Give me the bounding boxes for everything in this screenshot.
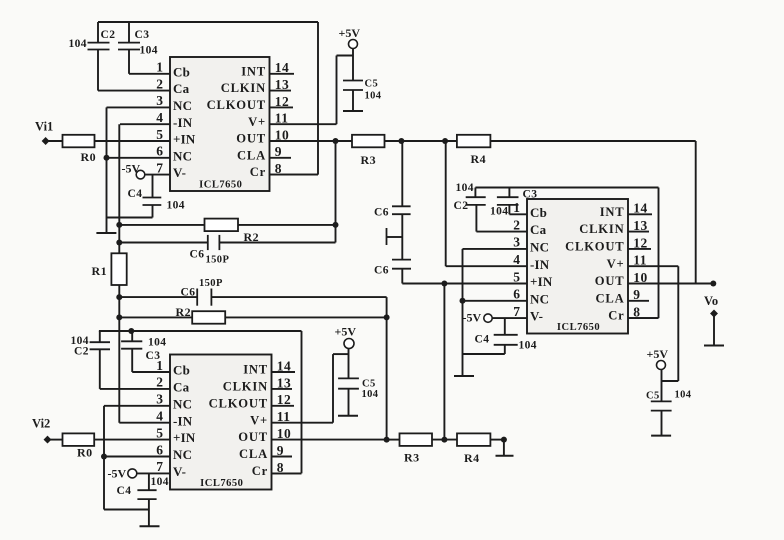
U2 pin 6 (NC) (104, 442, 170, 457)
U1 pin 13 (CLKIN) (270, 77, 292, 92)
svg-text:Vi1: Vi1 (35, 120, 53, 134)
label 104 (C4 U1) (167, 200, 185, 212)
svg-text:104: 104 (151, 476, 169, 488)
svg-text:C6: C6 (374, 265, 389, 277)
U1 pin 12 (CLKOUT) (270, 94, 294, 109)
U1 pin 5 (+IN) (95, 127, 171, 142)
wire: C6 row (U1 feedback) (119, 242, 335, 244)
svg-text:R0: R0 (77, 446, 92, 460)
svg-text:OUT: OUT (236, 132, 266, 146)
svg-text:1: 1 (156, 60, 163, 75)
wire: bottom node up to U3 pin5 (443, 284, 445, 440)
svg-text:2: 2 (156, 375, 163, 390)
wire: R3 to R4 (bottom) (432, 439, 457, 441)
wire: U3 pins 3+6 ground drop (462, 249, 464, 376)
svg-text:13: 13 (277, 375, 292, 390)
resistor R1 (111, 253, 126, 285)
junction: R4 bottom right (501, 437, 507, 443)
svg-text:-IN: -IN (530, 257, 550, 272)
svg-text:R4: R4 (464, 451, 479, 465)
svg-text:Vi2: Vi2 (32, 417, 50, 431)
svg-text:9: 9 (275, 144, 282, 159)
ground (Vo) (704, 345, 724, 347)
svg-text:Cr: Cr (608, 309, 624, 323)
svg-text:V-: V- (173, 464, 186, 479)
label 104 (C4 U2) (151, 476, 169, 488)
capacitor C6 (U2 feedback) 150P (197, 289, 211, 306)
svg-text:NC: NC (173, 98, 192, 113)
wire: U3 wrap net (top to pin 8) (475, 188, 658, 319)
svg-text:12: 12 (277, 392, 292, 407)
svg-text:2: 2 (513, 217, 520, 232)
label 104 (C3 U2) (148, 337, 166, 349)
svg-text:C4: C4 (128, 188, 143, 200)
label C6 (U2 feedback) (181, 287, 196, 299)
U1 pin 14 (INT) (270, 60, 295, 75)
label C5 (U1) (365, 79, 379, 90)
svg-text:R2: R2 (176, 305, 191, 319)
svg-text:R0: R0 (81, 150, 96, 164)
svg-text:C4: C4 (475, 334, 490, 346)
svg-text:10: 10 (275, 127, 290, 142)
node Vo (704, 294, 718, 308)
capacitor C2 (U2) 104 (90, 331, 110, 389)
label 104 (C3 U1) (140, 45, 158, 57)
svg-text:11: 11 (275, 111, 289, 126)
wire: R4 to ground (bottom) (490, 440, 504, 456)
svg-text:10: 10 (277, 426, 292, 441)
U2 pin 3 (NC) (104, 392, 170, 407)
label C6 (upper series) (374, 207, 389, 219)
svg-text:12: 12 (633, 235, 648, 250)
svg-text:3: 3 (513, 235, 520, 250)
svg-text:104: 104 (490, 206, 508, 218)
wire: U1 OUT row (336, 140, 353, 142)
svg-text:Ca: Ca (173, 380, 190, 395)
node Vi1 (35, 120, 63, 145)
svg-text:7: 7 (156, 160, 163, 175)
svg-text:5: 5 (513, 269, 520, 284)
U3 pin 1 (Cb) (509, 200, 527, 215)
svg-text:C5: C5 (362, 379, 376, 390)
ground (R4 bottom) (496, 455, 514, 457)
node Vi2 (32, 417, 63, 444)
U2 pin 1 (Cb) (132, 358, 170, 373)
junction: R2 row left (116, 222, 122, 228)
junction: R2 row right (U2) (384, 314, 390, 320)
svg-text:+5V: +5V (647, 347, 669, 361)
wire: U3 V+ to +5V (662, 266, 679, 381)
svg-text:104: 104 (365, 91, 382, 102)
capacitor C5 (U2) 104 (338, 378, 359, 415)
svg-text:ICL7650: ICL7650 (200, 478, 243, 489)
svg-text:C5: C5 (365, 79, 379, 90)
svg-text:C6: C6 (374, 207, 389, 219)
svg-text:C3: C3 (146, 350, 161, 362)
terminal: Vo to ground (710, 310, 718, 346)
label R3 (bottom) (404, 451, 419, 465)
svg-text:NC: NC (530, 291, 549, 306)
svg-text:104: 104 (140, 45, 158, 57)
label 104 (C4 U3) (519, 340, 537, 352)
svg-text:INT: INT (243, 363, 268, 377)
svg-text:C3: C3 (135, 29, 150, 41)
svg-text:4: 4 (513, 252, 520, 267)
svg-text:NC: NC (173, 148, 192, 163)
U3 pin 7 (V-) (492, 304, 527, 319)
stub: C6 midpoint tap (387, 228, 403, 245)
svg-text:NC: NC (530, 240, 549, 255)
svg-text:INT: INT (600, 205, 625, 219)
ground (U2) (140, 525, 160, 527)
ground (U1) (96, 232, 116, 234)
capacitor C5 (U1) 104 (343, 81, 363, 112)
label 104 (C5 U2) (362, 389, 379, 400)
ground (C5 U2) (338, 415, 358, 417)
wire: top node A down to C6 (401, 141, 403, 206)
svg-text:CLA: CLA (239, 447, 268, 461)
U2 pin 9 (CLA) (272, 443, 293, 458)
U1 pin 11 (V+) (270, 111, 337, 126)
op-amp U3 ICL7650 (527, 199, 628, 334)
svg-text:7: 7 (156, 459, 163, 474)
svg-text:C5: C5 (646, 391, 660, 402)
U2 pin 2 (Ca) (100, 375, 170, 390)
svg-text:11: 11 (277, 409, 291, 424)
label C4 (U2) (117, 485, 132, 497)
U3 pin 11 (V+) (628, 253, 678, 268)
capacitor C4 (U2) 104 (137, 473, 156, 526)
svg-text:104: 104 (675, 390, 692, 401)
svg-text:R3: R3 (404, 451, 419, 465)
svg-text:104: 104 (69, 38, 87, 50)
svg-text:Ca: Ca (530, 222, 547, 237)
svg-text:NC: NC (173, 447, 192, 462)
svg-text:+IN: +IN (173, 132, 196, 147)
capacitor C3 (U2) 104 (121, 331, 142, 372)
svg-text:Cb: Cb (173, 363, 190, 378)
power -5V (U1) (122, 161, 145, 179)
wire: R1 down to U2 pin4 (118, 285, 120, 423)
U2 pin 13 (CLKIN) (272, 375, 293, 390)
junction: pin6 U3 (460, 298, 466, 304)
wire: U2 feedback drop to OUT (386, 297, 388, 440)
svg-text:CLKIN: CLKIN (579, 222, 624, 236)
junction: top node A (C6 chain) (398, 138, 404, 144)
junction: pin6 U2 (101, 454, 107, 460)
wire: R4 to U3 OUT node (490, 141, 695, 284)
resistor R3 (bottom) (400, 433, 433, 446)
U2 pin 10 (OUT) (272, 426, 387, 441)
svg-text:14: 14 (277, 358, 292, 373)
svg-text:104: 104 (362, 389, 379, 400)
label R0 (U2) (77, 446, 92, 460)
label R4 (top) (471, 152, 486, 166)
U1 pin 2 (Ca) (98, 76, 170, 91)
U1 pin 4 (-IN) (120, 110, 170, 125)
label 104 (C5 U1) (365, 91, 382, 102)
svg-text:C2: C2 (74, 346, 89, 358)
wire: U2 pins 3+6 ground drop (104, 406, 149, 510)
label C4 (U1) (128, 188, 143, 200)
svg-text:-5V: -5V (463, 311, 482, 325)
junction: R2 row right (333, 222, 339, 228)
svg-text:C6: C6 (181, 287, 196, 299)
U1 pin 6 (NC) (107, 144, 171, 159)
svg-text:+IN: +IN (173, 430, 196, 445)
svg-text:Cb: Cb (530, 205, 547, 220)
U2 pin 14 (INT) (272, 358, 296, 373)
U3 pin 8 (Cr) (628, 305, 659, 320)
svg-text:+IN: +IN (530, 274, 553, 289)
svg-text:2: 2 (156, 76, 163, 91)
label C2 (U3) (454, 200, 469, 212)
svg-text:14: 14 (633, 201, 648, 216)
wire: U1 pins 3+6 ground drop (106, 107, 108, 233)
op-amp U1 ICL7650 (170, 57, 270, 191)
wire: U2 V+ to +5V (333, 354, 349, 423)
label C3 (U3) (523, 189, 538, 201)
svg-text:C4: C4 (117, 485, 132, 497)
svg-text:V+: V+ (248, 115, 266, 129)
wire: U3 OUT row (628, 283, 713, 285)
U1 pin 9 (CLA) (270, 144, 292, 159)
wire: U1 OUT drop to feedback (335, 141, 337, 243)
svg-text:C6: C6 (190, 249, 205, 261)
resistor R0 (U2 input) (63, 433, 95, 446)
svg-text:3: 3 (156, 93, 163, 108)
U3 pin 14 (INT) (628, 201, 652, 216)
U2 pin 11 (V+) (272, 409, 334, 424)
wire: U2 wrap net (C2 top to pin 8) (99, 331, 302, 473)
power +5V (U3) (647, 347, 669, 401)
label C5 (U3) (646, 391, 660, 402)
label 104 (C2 U3) (456, 182, 474, 194)
label C5 (U2) (362, 379, 376, 390)
svg-text:V-: V- (173, 165, 186, 180)
svg-text:9: 9 (633, 287, 640, 302)
svg-text:14: 14 (275, 60, 290, 75)
wire: R2 row (U2 feedback) (119, 316, 386, 318)
wire: U2 OUT row (387, 439, 400, 441)
svg-text:C2: C2 (454, 200, 469, 212)
svg-text:Cr: Cr (252, 464, 268, 478)
svg-text:V+: V+ (250, 413, 268, 427)
junction: R2 row left (U2) (116, 314, 122, 320)
U3 pin 10 (OUT) (628, 270, 696, 285)
U2 pin 8 (Cr) (272, 460, 302, 475)
capacitor C3 (U1) 104 (118, 22, 140, 74)
ground (C5 U3) (651, 435, 671, 437)
U3 pin 6 (NC) (463, 287, 528, 302)
label C2 (U2) (74, 346, 89, 358)
svg-text:OUT: OUT (595, 274, 625, 288)
svg-text:6: 6 (513, 287, 520, 302)
U2 pin 12 (CLKOUT) (272, 392, 295, 407)
svg-text:150P: 150P (199, 278, 223, 289)
svg-text:9: 9 (277, 443, 284, 458)
U3 pin 9 (CLA) (628, 287, 649, 302)
U3 pin 13 (CLKIN) (628, 218, 649, 233)
U2 pin 5 (+IN) (94, 425, 170, 440)
wire: top node B down to U3 pin4 (445, 141, 447, 266)
U1 pin 10 (OUT) (270, 127, 336, 142)
svg-text:CLKOUT: CLKOUT (565, 240, 624, 254)
power -5V (U2) (108, 467, 137, 481)
svg-text:V-: V- (530, 309, 543, 324)
ground (U3) (454, 375, 474, 377)
ground (C5 U1) (343, 110, 363, 112)
svg-text:ICL7650: ICL7650 (557, 322, 600, 333)
label C6 (U1 feedback) (190, 249, 205, 261)
power +5V (U2) (335, 325, 357, 379)
svg-text:CLKOUT: CLKOUT (209, 396, 268, 410)
svg-text:V+: V+ (607, 257, 625, 271)
svg-text:6: 6 (156, 442, 163, 457)
svg-text:CLKOUT: CLKOUT (207, 98, 266, 112)
svg-text:104: 104 (148, 337, 166, 349)
resistor R4 (bottom) (457, 433, 490, 446)
label C3 (U2) (146, 350, 161, 362)
U1 pin 1 (Cb) (129, 60, 170, 75)
junction: U3 pin5 row (441, 281, 447, 287)
label 104 (C5 U3) (675, 390, 692, 401)
junction: bottom node (to U3 pin5) (441, 437, 447, 443)
junction: U2 OUT feedback tap (384, 437, 390, 443)
junction: pin6 U1 (104, 155, 110, 161)
svg-text:104: 104 (456, 182, 474, 194)
label R3 (top) (361, 153, 376, 167)
label R2 (U2 feedback) (176, 305, 191, 319)
resistor R2 (U2 feedback) (192, 311, 225, 324)
U3 pin 12 (CLKOUT) (628, 235, 651, 250)
svg-text:104: 104 (519, 340, 537, 352)
wire: C6 row (U2 feedback) (119, 296, 386, 298)
wire: U1 V+ to +5V (337, 56, 354, 125)
svg-text:R3: R3 (361, 153, 376, 167)
wire: U1 wrap net (C2 top to pin 8) (98, 22, 318, 175)
svg-text:CLKIN: CLKIN (221, 81, 266, 95)
label R1 (92, 264, 107, 278)
U2 pin 4 (-IN) (119, 409, 170, 424)
op-amp U2 ICL7650 (170, 355, 272, 490)
svg-text:13: 13 (633, 218, 648, 233)
resistor R3 (top) (352, 135, 385, 148)
label 150P (U1 feedback) (206, 255, 230, 266)
svg-text:R4: R4 (471, 152, 486, 166)
label C2 (U1) (101, 29, 116, 41)
U1 pin 8 (Cr) (270, 161, 319, 176)
U2 pin 7 (V-) (137, 459, 170, 474)
power -5V (U3) (463, 311, 493, 325)
svg-text:+5V: +5V (335, 325, 357, 339)
wire: R2 row (U1 feedback) (119, 224, 335, 226)
label 104 (C3 U3) (490, 206, 508, 218)
svg-text:Vo: Vo (704, 294, 718, 308)
label C4 (U3) (475, 334, 490, 346)
junction: C3 top (U2) (128, 328, 134, 334)
capacitor C3 (U3) 104 (497, 188, 519, 215)
svg-text:Cr: Cr (250, 165, 266, 179)
svg-text:INT: INT (241, 64, 266, 78)
capacitor C4 (U3) 104 (463, 318, 518, 354)
label R4 (bottom) (464, 451, 479, 465)
svg-text:CLA: CLA (237, 148, 266, 162)
label 150P (U2 feedback) (199, 278, 223, 289)
svg-text:-IN: -IN (173, 115, 193, 130)
U1 pin 7 (V-) (145, 160, 170, 175)
capacitor C6 (upper series) (392, 206, 411, 259)
svg-text:4: 4 (156, 409, 163, 424)
label C3 (U1) (135, 29, 150, 41)
svg-text:CLKIN: CLKIN (223, 380, 268, 394)
U3 pin 2 (Ca) (476, 217, 527, 232)
svg-text:OUT: OUT (238, 430, 268, 444)
U3 pin 3 (NC) (463, 235, 528, 250)
svg-text:7: 7 (513, 304, 520, 319)
junction: U1 OUT feedback tap (333, 138, 339, 144)
svg-text:5: 5 (156, 127, 163, 142)
U3 pin 5 (+IN) (402, 269, 527, 284)
junction: top node B (to U3 pin4) (442, 138, 448, 144)
capacitor C2 (U1) 104 (88, 22, 110, 91)
label R2 (U1 feedback) (244, 230, 259, 244)
capacitor C5 (U3) 104 (651, 401, 672, 435)
label 104 (C2 U1) (69, 38, 87, 50)
svg-text:6: 6 (156, 144, 163, 159)
wire: U1 pin4 down to R1 (118, 124, 120, 253)
label C6 (lower series) (374, 265, 389, 277)
svg-text:11: 11 (633, 253, 647, 268)
capacitor C2 (U3) 104 (466, 188, 486, 232)
junction: C6 row left (116, 240, 122, 246)
svg-text:+5V: +5V (339, 26, 361, 40)
svg-text:Ca: Ca (173, 81, 190, 96)
svg-text:C3: C3 (523, 189, 538, 201)
label R0 (U1) (81, 150, 96, 164)
svg-text:13: 13 (275, 77, 290, 92)
svg-text:-5V: -5V (108, 467, 127, 481)
svg-text:ICL7650: ICL7650 (199, 180, 242, 191)
svg-text:R1: R1 (92, 264, 107, 278)
svg-text:150P: 150P (206, 255, 230, 266)
wire: R3 to R4 (top) (385, 140, 457, 142)
label 104 (C2 U2) (71, 335, 89, 347)
capacitor C6 (U1 feedback) 150P (208, 235, 220, 250)
junction: C6 row left (U2) (116, 294, 122, 300)
svg-text:5: 5 (156, 425, 163, 440)
svg-text:CLA: CLA (596, 291, 625, 305)
svg-text:1: 1 (513, 200, 520, 215)
svg-text:3: 3 (156, 392, 163, 407)
resistor R4 (top) (457, 135, 491, 148)
junction: OUT end node (710, 281, 716, 287)
svg-text:NC: NC (173, 396, 192, 411)
svg-text:12: 12 (275, 94, 290, 109)
capacitor C4 (U1) 104 (107, 175, 162, 218)
U3 pin 4 (-IN) (446, 252, 527, 267)
power +5V (U1) (339, 26, 361, 81)
svg-text:Cb: Cb (173, 64, 190, 79)
resistor R2 (U1 feedback) (205, 219, 239, 232)
svg-text:4: 4 (156, 110, 163, 125)
svg-text:104: 104 (167, 200, 185, 212)
svg-text:-IN: -IN (173, 413, 193, 428)
svg-text:C2: C2 (101, 29, 116, 41)
capacitor C6 (lower series) (392, 260, 411, 284)
U1 pin 3 (NC) (107, 93, 171, 108)
resistor R0 (U1 input) (63, 135, 95, 148)
